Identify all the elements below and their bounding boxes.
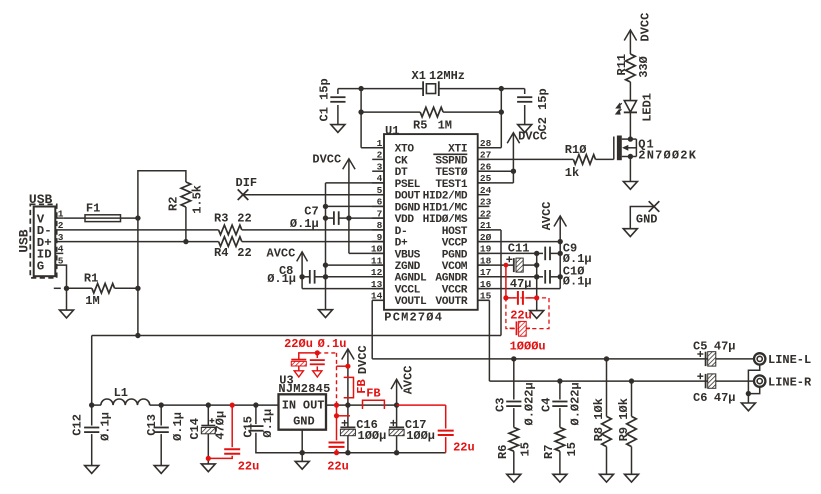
svg-text:Ø.Ø22µ: Ø.Ø22µ: [523, 382, 537, 425]
svg-text:23: 23: [480, 197, 492, 208]
crystal X1: [423, 81, 439, 96]
node C10 right junction: [558, 274, 563, 279]
resistor R7: [555, 427, 565, 474]
resistor R1: [67, 284, 138, 294]
red FB bracket vertical: [344, 377, 354, 397]
node VBUS-F1 junction: [135, 215, 140, 220]
svg-text:D+: D+: [395, 238, 408, 250]
svg-text:VCCP: VCCP: [442, 238, 468, 250]
wire VCCP pin20: [478, 241, 561, 243]
ground below R8: [600, 474, 614, 482]
label C16 value 100u: [358, 429, 387, 443]
label C14: [188, 418, 202, 440]
label R11 value 330: [637, 56, 651, 78]
red label 220u: [284, 337, 313, 351]
capacitor C10: [537, 270, 561, 284]
node ZGND junction: [323, 262, 328, 267]
red label 22u by C14: [238, 460, 260, 474]
ground below C13: [154, 466, 168, 474]
label 2N7002K: [638, 148, 697, 162]
node TEST0 junction: [511, 169, 516, 174]
capacitor C3: [506, 359, 521, 428]
pin label VCCL: [395, 285, 421, 297]
node C15 junction: [253, 402, 258, 407]
connector USB body: [34, 207, 56, 277]
pin 21 stub of U1: [478, 229, 490, 231]
red capacitor 22u parallel C14: [206, 405, 241, 461]
LED LED1: [624, 101, 637, 113]
svg-text:ZGND: ZGND: [395, 261, 421, 273]
ground below USB: [60, 288, 74, 318]
svg-text:U1: U1: [385, 124, 399, 138]
svg-text:G: G: [37, 259, 44, 273]
label USB top: [29, 192, 53, 207]
svg-text:2: 2: [377, 150, 383, 161]
label GND: [636, 213, 658, 227]
LED1 light arrows: [616, 103, 622, 114]
svg-text:Ø.1µ: Ø.1µ: [261, 409, 275, 438]
label R7 value 15: [565, 442, 579, 456]
capacitor C9: [537, 247, 561, 261]
wire AGNDL pin12: [326, 276, 385, 278]
svg-text:Ø.1µ: Ø.1µ: [290, 217, 319, 231]
label C5 47u: [693, 340, 736, 354]
transistor Q1 2N7002K: [614, 136, 637, 161]
pin label HIDØ/MS: [423, 214, 468, 226]
node R1 right junction: [135, 286, 140, 291]
wire HOST pin21 to 5V rail: [478, 230, 501, 336]
USB pin number 4: [58, 244, 64, 255]
ground below left vertical: [319, 310, 333, 318]
svg-text:C6: C6: [693, 391, 707, 405]
label plus C17: [390, 417, 397, 431]
label C7 value 0.1u: [290, 217, 319, 231]
label plus C16: [341, 417, 348, 431]
label C3: [493, 398, 507, 412]
svg-text:1: 1: [377, 138, 383, 149]
svg-text:L1: L1: [114, 386, 128, 400]
connector LINE-R jack: [754, 375, 765, 386]
pin number 11: [371, 255, 383, 266]
svg-text:F1: F1: [86, 201, 100, 215]
pin number 20: [480, 232, 492, 243]
svg-text:LED1: LED1: [641, 93, 655, 122]
wire VBUS vertical: [137, 218, 139, 335]
node jack ground junction: [746, 391, 751, 396]
red dashed box: [506, 298, 549, 329]
pin 25 stub of U1: [478, 182, 490, 184]
svg-text:DT: DT: [395, 167, 408, 179]
node VCCP junction: [558, 239, 563, 244]
pin number 8: [377, 220, 383, 231]
red ground below 220u: [294, 371, 303, 377]
svg-text:C12: C12: [71, 414, 85, 436]
svg-text:Ø.Ø22µ: Ø.Ø22µ: [569, 382, 583, 425]
power AVCC left: [297, 252, 308, 289]
pin label DT: [395, 167, 408, 179]
svg-text:HOST: HOST: [442, 226, 468, 238]
svg-text:R6: R6: [496, 445, 510, 459]
node C16 top junction: [347, 404, 349, 406]
label C15 value 0.1u: [261, 409, 275, 438]
red node cap left: [503, 295, 508, 300]
node C8 right junction: [323, 274, 328, 279]
svg-text:22u: 22u: [238, 460, 260, 474]
node C8 left junction: [299, 274, 304, 279]
label C1 15p: [318, 78, 332, 121]
svg-text:C14: C14: [188, 418, 202, 440]
resistor R8 10k: [602, 359, 612, 474]
wire TEST0 pin26: [478, 170, 514, 172]
label C13 value 0.1u: [171, 412, 185, 441]
svg-text:OUT: OUT: [303, 399, 325, 413]
pin 18 stub of U1: [478, 264, 490, 266]
red capacitor 22u below out: [329, 416, 345, 453]
label R2: [167, 197, 181, 211]
node AGNDR junction: [534, 274, 539, 279]
wire LED1 to Q1 drain: [629, 112, 631, 139]
node PGND junction: [534, 251, 539, 256]
label PCM2704: [384, 311, 443, 325]
svg-text:Ø.1µ: Ø.1µ: [171, 412, 185, 441]
wire PGND pin19: [478, 252, 537, 254]
pin 12 stub of U1: [372, 276, 384, 278]
label C7: [304, 205, 318, 219]
label C8 value 0.1u: [267, 272, 296, 286]
pin label VCOM: [442, 261, 468, 273]
USB pin5 wire to ground node: [55, 265, 66, 288]
node xtal-left junction: [358, 86, 363, 91]
red dashed link: [317, 353, 336, 405]
overline on SSPND: [433, 153, 467, 155]
svg-text:22u: 22u: [510, 308, 532, 322]
svg-text:AVCC: AVCC: [267, 246, 296, 260]
capacitor C6 electrolytic: [706, 374, 754, 388]
svg-text:3: 3: [377, 161, 383, 172]
resistor R10: [573, 155, 613, 165]
svg-text:DVCC: DVCC: [312, 152, 341, 166]
svg-text:Ø.1u: Ø.1u: [318, 337, 347, 351]
USB pin label D-: [37, 224, 52, 238]
svg-text:GND: GND: [636, 213, 658, 227]
svg-text:VOUTR: VOUTR: [435, 296, 467, 308]
svg-text:AGNDR: AGNDR: [435, 273, 467, 285]
svg-text:VCCL: VCCL: [395, 285, 421, 297]
5V rail: [92, 335, 501, 337]
pin 28 stub of U1: [478, 147, 490, 149]
red wire down from out: [336, 405, 338, 416]
pin label D+: [395, 238, 408, 250]
pin label XTO: [395, 144, 415, 156]
svg-text:47Øµ: 47Øµ: [214, 411, 228, 440]
label C17 value 100u: [406, 429, 435, 443]
svg-text:R4: R4: [214, 246, 228, 260]
pin number 28: [480, 138, 492, 149]
red wire out extension: [397, 404, 446, 406]
capacitor C15: [248, 405, 302, 453]
label NJM2845: [278, 382, 330, 396]
svg-text:1ØØØu: 1ØØØu: [510, 340, 546, 354]
label R3 22: [214, 211, 252, 225]
label DVCC left: [312, 152, 341, 166]
capacitor C13: [154, 405, 169, 466]
pin label VCCR: [442, 285, 468, 297]
node R8 junction: [604, 356, 609, 361]
red wire to C16: [337, 415, 351, 417]
red node cap right: [534, 295, 539, 300]
pin number 27: [480, 150, 492, 161]
pin label VBUS: [395, 249, 421, 261]
wire TEST1 pin25: [478, 182, 514, 184]
node C7 right junction: [346, 215, 351, 220]
svg-text:2N7ØØ2K: 2N7ØØ2K: [638, 148, 697, 162]
right analog ground vertical: [536, 253, 538, 310]
pin 23 stub of U1: [478, 205, 490, 207]
right AVCC vertical: [559, 242, 561, 289]
label LINE-L: [768, 353, 811, 367]
pin label ZGND: [395, 261, 421, 273]
label X1 12MHz: [412, 69, 466, 83]
node C7 left junction: [323, 215, 328, 220]
pin number 2: [377, 150, 383, 161]
label C17: [405, 418, 427, 432]
node L1 left junction: [89, 402, 94, 407]
red label FB horizontal: [366, 387, 380, 401]
USB pin label G: [37, 259, 44, 273]
pin 17 stub of U1: [478, 276, 490, 278]
label R9 10k: [617, 398, 631, 441]
power AVCC at U3 out: [391, 379, 402, 405]
svg-text:R9 1Øk: R9 1Øk: [617, 398, 631, 441]
svg-text:1ØØµ: 1ØØµ: [406, 429, 435, 443]
line-L rail: [372, 358, 708, 360]
resistor R3 in D- line: [55, 225, 384, 235]
pin label DGND: [395, 202, 421, 214]
svg-text:22u: 22u: [327, 460, 349, 474]
capacitor C7: [326, 211, 349, 225]
svg-text:TEST1: TEST1: [435, 179, 467, 191]
svg-text:HID1/MC: HID1/MC: [423, 202, 468, 214]
label R6 value 15: [519, 442, 533, 456]
plus mark C14: [210, 418, 215, 423]
red node 220u: [315, 350, 320, 355]
wire XTO top from C1 to crystal: [338, 88, 423, 90]
pin 22 stub of U1: [478, 217, 490, 219]
svg-text:VCOM: VCOM: [442, 261, 468, 273]
svg-text:PCM27Ø4: PCM27Ø4: [384, 311, 443, 325]
pin 5 stub of U1: [372, 194, 384, 196]
label GND of U3: [293, 415, 315, 429]
pin 26 stub of U1: [478, 170, 490, 172]
label AVCC at U3: [402, 365, 416, 394]
svg-text:SSPND: SSPND: [435, 155, 467, 167]
pin 24 stub of U1: [478, 194, 490, 196]
label C4: [540, 398, 554, 412]
svg-text:15: 15: [565, 442, 579, 456]
label R1: [84, 271, 98, 285]
svg-text:1M: 1M: [438, 118, 452, 132]
ground below GND label: [623, 229, 637, 237]
svg-text:TESTØ: TESTØ: [435, 167, 467, 179]
label R6: [496, 445, 510, 459]
node C9 right junction: [558, 251, 563, 256]
USB pin4 stub ID: [55, 252, 63, 254]
red FB bracket horizontal: [363, 400, 385, 409]
red capacitor 0.1u: [310, 353, 325, 371]
wire VCCR pin16: [478, 288, 561, 290]
svg-text:AGNDL: AGNDL: [395, 273, 427, 285]
pin 10 stub of U1: [372, 252, 384, 254]
label LED1: [641, 93, 655, 122]
capacitor C12: [84, 405, 99, 466]
svg-text:PGND: PGND: [442, 249, 468, 261]
label C10 value 0.1u: [563, 275, 592, 289]
svg-text:+: +: [341, 417, 348, 431]
jack ground wires: [748, 365, 759, 394]
pin 11 stub of U1: [372, 264, 384, 266]
resistor R5: [361, 107, 501, 117]
pin number 23: [480, 197, 492, 208]
USB pin number 3: [58, 232, 64, 243]
GND net label wire: [630, 207, 654, 229]
node R9 junction: [629, 378, 634, 383]
svg-text:24: 24: [480, 185, 492, 196]
ground below R9: [625, 474, 639, 482]
label C12 value 0.1u: [98, 412, 112, 441]
capacitor C11 electrolytic: [478, 258, 537, 272]
pin number 24: [480, 185, 492, 196]
wire U3 OUT: [326, 404, 397, 406]
svg-text:22: 22: [480, 208, 492, 219]
pin number 25: [480, 173, 492, 184]
pin label AGNDL: [395, 273, 427, 285]
label R1 value 1M: [85, 294, 99, 308]
svg-text:Ø.1µ: Ø.1µ: [563, 275, 592, 289]
wire VBUS pin10: [349, 252, 384, 254]
svg-text:22Øu: 22Øu: [284, 337, 313, 351]
node C17 bottom junction: [394, 450, 399, 455]
pin number 3: [377, 161, 383, 172]
svg-text:+: +: [390, 417, 397, 431]
U3 ground stem: [301, 430, 303, 462]
label C8: [279, 264, 293, 278]
svg-text:AVCC: AVCC: [540, 201, 554, 230]
wire VOUTL pin14 down to line-L rail: [372, 300, 384, 359]
svg-text:22: 22: [237, 246, 251, 260]
pin number 1: [377, 138, 383, 149]
pin 14 stub of U1: [372, 299, 384, 301]
connector LINE-L jack: [754, 353, 765, 364]
pin number 17: [480, 267, 492, 278]
fuse F1: [63, 215, 138, 222]
wire SSPND pin27 to R10: [478, 158, 574, 160]
svg-text:DOUT: DOUT: [395, 191, 421, 203]
ground below C12: [85, 466, 99, 474]
wire crystal left to pin1: [361, 89, 384, 148]
ground bus: [302, 452, 446, 454]
svg-text:R11: R11: [615, 54, 629, 76]
node C16 bottom junction: [345, 450, 350, 455]
wire VOUTR pin15 down to line-R rail: [478, 300, 490, 381]
node AVCC stem junction: [394, 402, 399, 407]
svg-text:12MHz: 12MHz: [429, 69, 465, 83]
pin number 7: [377, 208, 383, 219]
pin 16 stub of U1: [478, 288, 490, 290]
resistor R6: [509, 427, 519, 474]
svg-text:Ø.1µ: Ø.1µ: [98, 412, 112, 441]
label C3 value 0.022u: [523, 382, 537, 425]
pin 13 stub of U1: [372, 288, 384, 290]
svg-text:22: 22: [237, 211, 251, 225]
ground below C14: [201, 464, 215, 472]
wire XTI top from crystal to C2: [439, 88, 525, 90]
svg-text:1M: 1M: [85, 294, 99, 308]
svg-text:1k: 1k: [565, 166, 579, 180]
label C9 value 0.1u: [563, 252, 592, 266]
svg-text:C2 15p: C2 15p: [536, 88, 550, 131]
node VBUS rail junction: [135, 333, 140, 338]
ground below U3: [295, 461, 309, 469]
label C14 value 470u: [214, 411, 228, 440]
label C11 value 47u: [510, 277, 532, 291]
label F1: [86, 201, 100, 215]
shield stub: [54, 287, 61, 289]
svg-text:R1: R1: [84, 271, 98, 285]
node DGND junction: [323, 204, 328, 209]
svg-text:LINE-L: LINE-L: [768, 353, 811, 367]
node C14 junction: [206, 402, 211, 407]
wire ZGND pin11: [326, 264, 385, 266]
ground below Q1: [623, 182, 637, 190]
ground below R6: [507, 474, 521, 482]
node xtal-right junction: [499, 86, 504, 91]
ground below AGND vertical: [530, 311, 544, 319]
USB pin number 5: [58, 255, 64, 266]
label L1: [114, 386, 128, 400]
label DVCC top right: [638, 13, 652, 42]
node C4 junction: [557, 378, 562, 383]
resistor R2 pull-up: [138, 171, 191, 242]
label R8 10k: [592, 398, 606, 441]
wire AGNDR pin17: [478, 276, 537, 278]
label R10 value 1k: [565, 166, 579, 180]
pin 3 stub of U1: [372, 170, 384, 172]
connector USB shield dashed box: [30, 204, 56, 278]
pin label VOUTR: [435, 296, 467, 308]
red ground below 0.1u: [313, 371, 322, 377]
pin label DOUT: [395, 191, 421, 203]
red node C14 parallel top: [230, 403, 235, 408]
ground below jacks: [741, 394, 755, 411]
svg-text:C3: C3: [493, 398, 507, 412]
wire PSEL pin4: [326, 182, 385, 184]
capacitor C17 electrolytic: [389, 405, 404, 453]
wire rail to L1: [91, 336, 93, 406]
node U3 GND junction: [300, 450, 305, 455]
label OUT: [303, 399, 325, 413]
pin label TEST1: [435, 179, 467, 191]
svg-text:R2: R2: [167, 197, 181, 211]
red label 22u at out: [453, 441, 475, 455]
capacitor C4: [552, 381, 567, 427]
svg-text:GND: GND: [293, 415, 315, 429]
power DVCC above VBUS: [343, 159, 355, 254]
svg-text:R8 1Øk: R8 1Øk: [592, 398, 606, 441]
red node at U3 out: [334, 403, 339, 408]
svg-text:28: 28: [480, 138, 492, 149]
ground below C1: [331, 125, 345, 133]
label C9: [563, 242, 577, 256]
